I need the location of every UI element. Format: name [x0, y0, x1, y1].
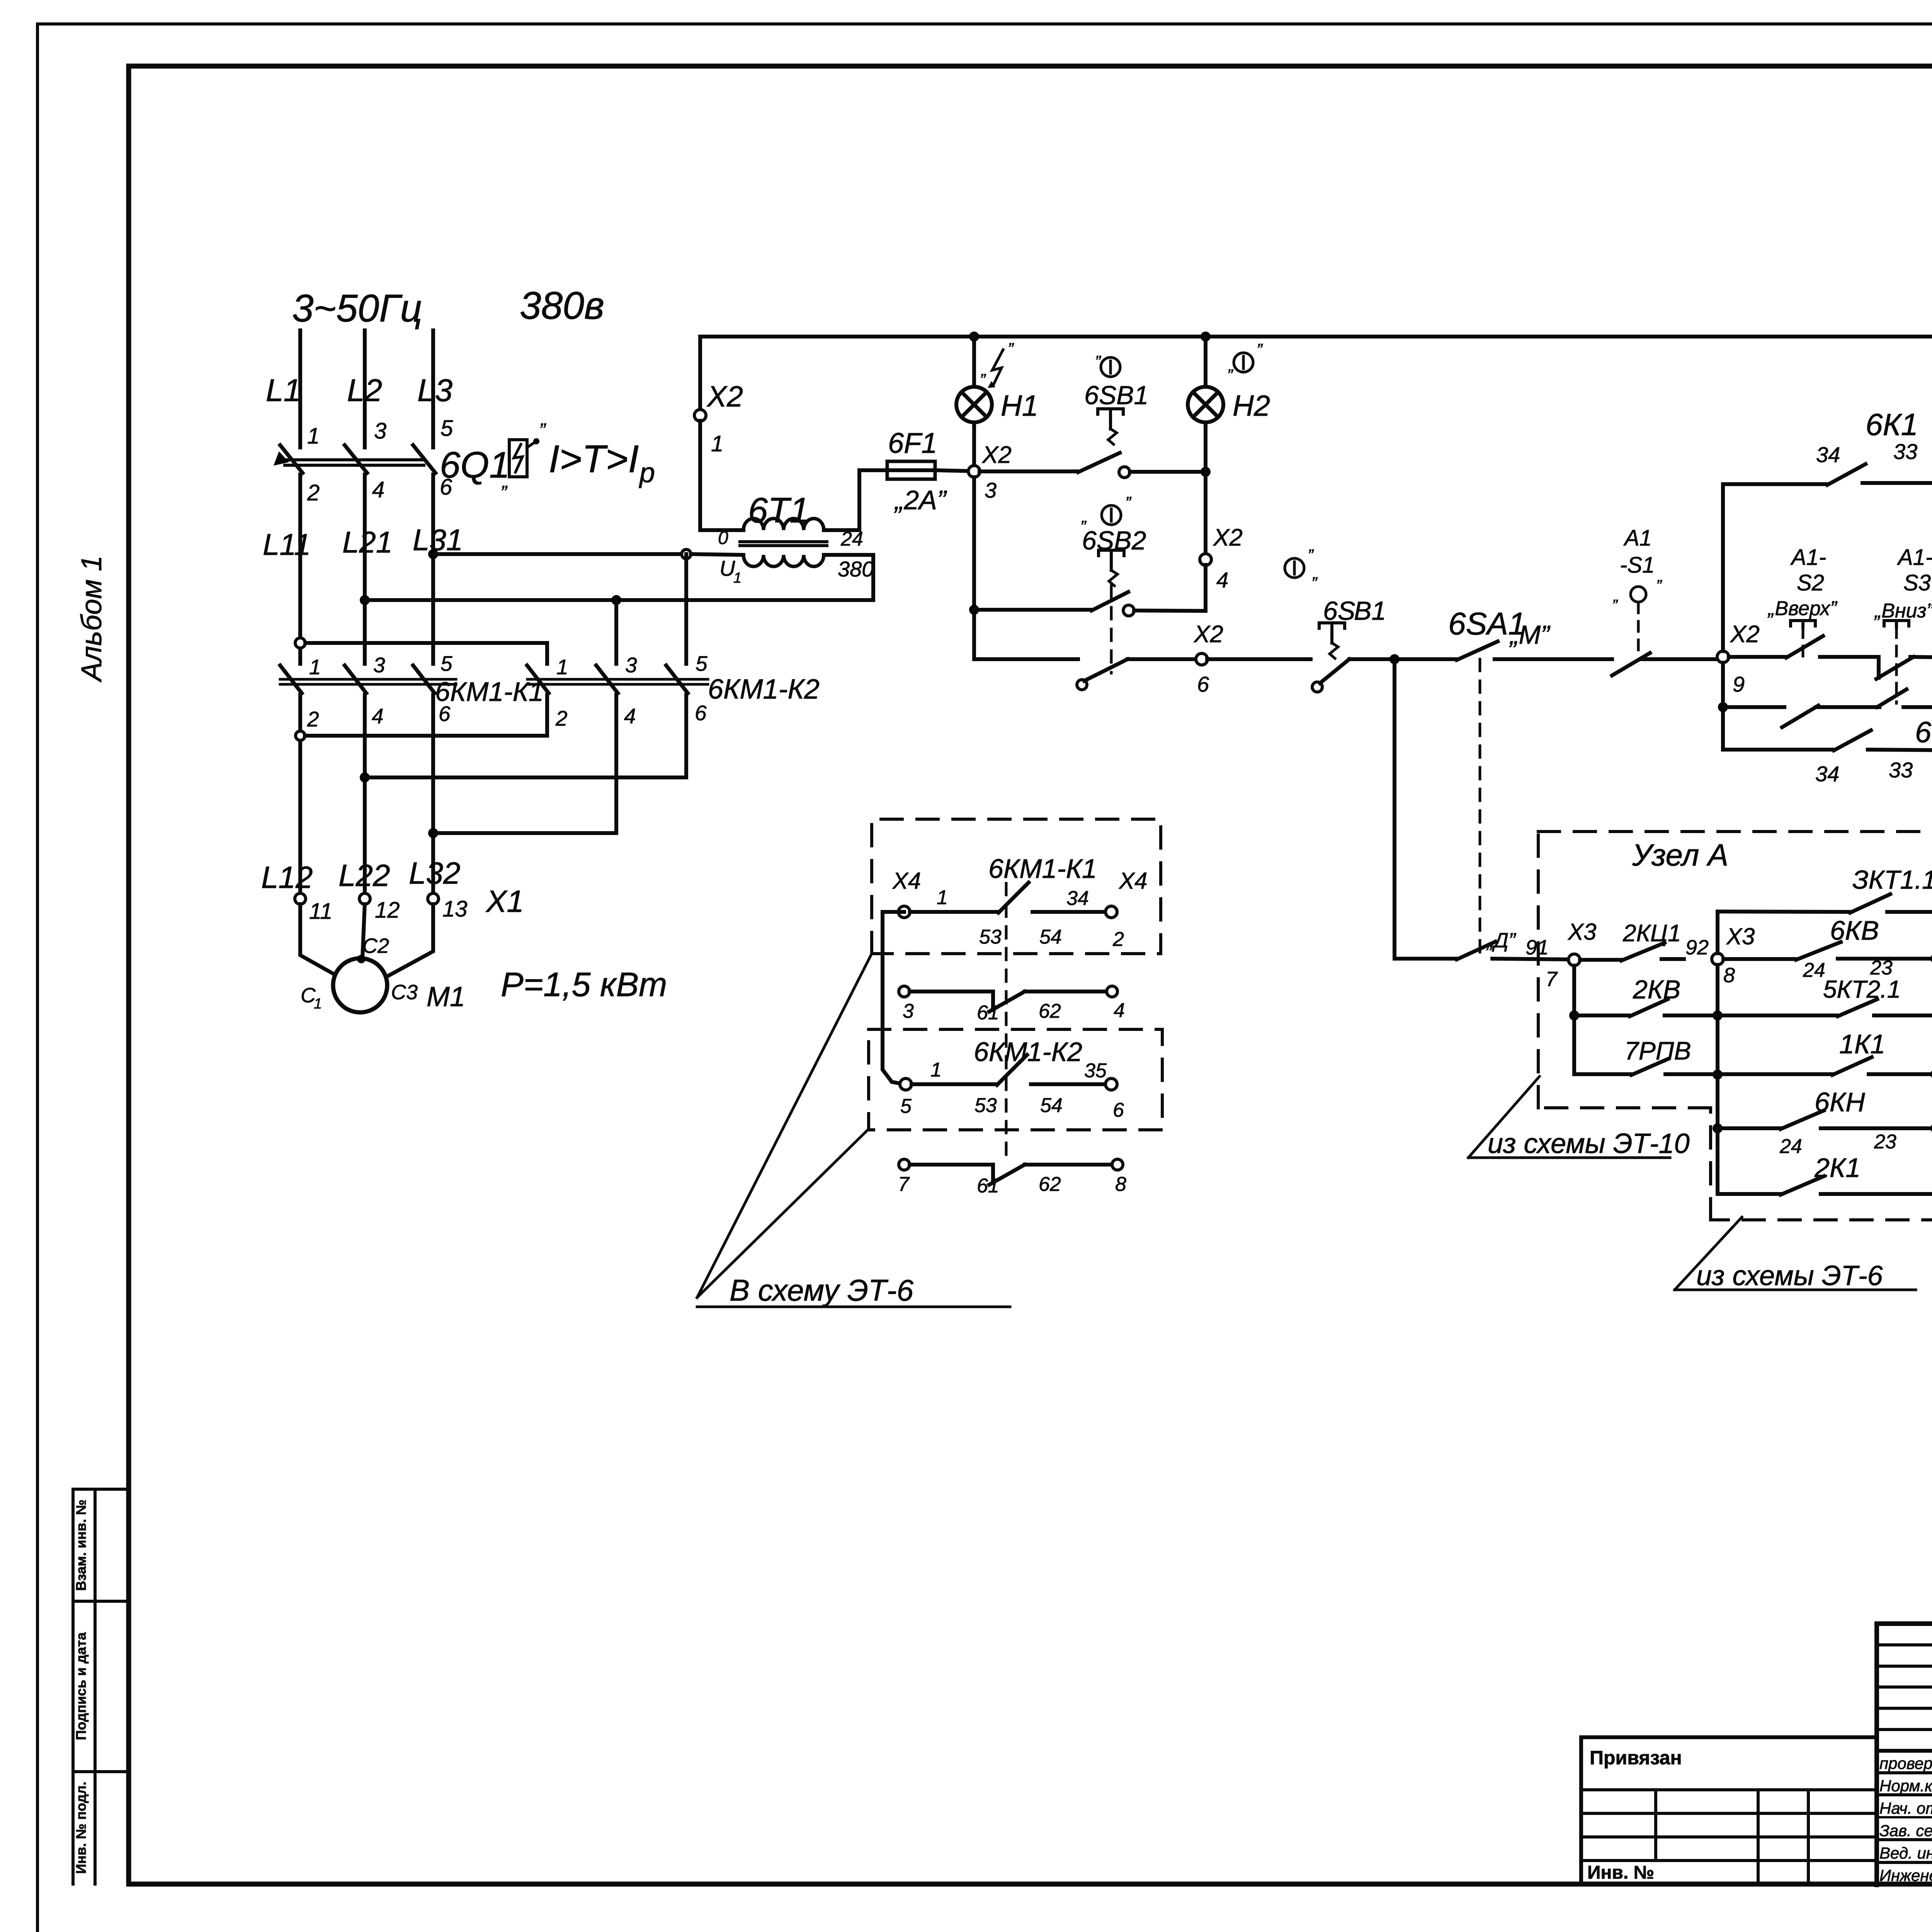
svg-text:6: 6 [1113, 1099, 1124, 1121]
svg-text:8: 8 [1723, 964, 1735, 987]
svg-text:1: 1 [937, 886, 948, 909]
svg-text:6SB1: 6SB1 [1084, 381, 1148, 410]
svg-text:X2: X2 [1193, 621, 1223, 648]
svg-text:2: 2 [307, 707, 319, 731]
svg-text:2: 2 [307, 480, 320, 505]
svg-text:”: ” [1008, 340, 1014, 359]
svg-text:35: 35 [1084, 1060, 1107, 1082]
svg-text:6F1: 6F1 [888, 427, 937, 459]
svg-text:Узел А: Узел А [1632, 838, 1728, 872]
svg-text:3: 3 [903, 1000, 914, 1022]
svg-text:2КВ: 2КВ [1633, 975, 1680, 1004]
svg-text:провер.: провер. [1879, 1754, 1932, 1772]
svg-text:из схемы ЭТ-6: из схемы ЭТ-6 [1696, 1260, 1883, 1291]
svg-text:61: 61 [977, 1002, 999, 1024]
svg-text:4: 4 [372, 477, 384, 502]
svg-text:24: 24 [1779, 1135, 1802, 1158]
svg-text:54: 54 [1039, 926, 1062, 948]
svg-text:53: 53 [979, 926, 1002, 948]
svg-text:5: 5 [900, 1095, 912, 1117]
svg-text:6: 6 [440, 474, 452, 500]
svg-text:8: 8 [1115, 1173, 1126, 1196]
svg-text:L2: L2 [347, 373, 382, 408]
svg-text:33: 33 [1889, 758, 1913, 782]
svg-text:”: ” [1257, 340, 1263, 359]
svg-text:6КВ: 6КВ [1830, 915, 1879, 946]
svg-text:1К1: 1К1 [1839, 1029, 1885, 1059]
svg-text:X3: X3 [1567, 919, 1596, 945]
svg-text:5: 5 [440, 416, 453, 441]
svg-text:Привязан: Привязан [1590, 1747, 1682, 1769]
svg-text:0: 0 [718, 528, 728, 548]
svg-text:Н1: Н1 [1001, 389, 1038, 422]
svg-text:23: 23 [1874, 1131, 1896, 1153]
svg-text:6Т1: 6Т1 [748, 491, 810, 530]
svg-text:„: „ [1081, 507, 1088, 526]
svg-text:1: 1 [307, 423, 320, 449]
svg-text:92: 92 [1685, 936, 1709, 959]
svg-text:X3: X3 [1726, 923, 1755, 949]
svg-text:6К2: 6К2 [1915, 716, 1932, 749]
svg-text:L11: L11 [263, 527, 311, 561]
svg-text:24: 24 [1803, 959, 1825, 981]
svg-text:5: 5 [440, 651, 452, 675]
svg-text:А1-: А1- [1790, 545, 1826, 570]
svg-text:34: 34 [1816, 442, 1840, 467]
svg-text:380: 380 [838, 557, 874, 581]
svg-text:1: 1 [314, 996, 322, 1012]
svg-text:6КМ1-К2: 6КМ1-К2 [708, 674, 820, 705]
svg-text:53: 53 [975, 1094, 997, 1117]
svg-text:L21: L21 [342, 525, 393, 559]
svg-text:А1: А1 [1623, 526, 1652, 551]
svg-text:2: 2 [555, 706, 568, 730]
svg-text:11: 11 [309, 899, 332, 924]
svg-text:4: 4 [372, 704, 384, 728]
svg-text:X2: X2 [1730, 621, 1760, 648]
svg-text:Инв. №: Инв. № [1587, 1862, 1654, 1883]
svg-text:1: 1 [556, 655, 568, 679]
svg-text:М1: М1 [427, 981, 465, 1012]
svg-text:12: 12 [375, 898, 400, 923]
svg-text:L32: L32 [409, 856, 460, 890]
svg-text:L3: L3 [417, 373, 452, 408]
svg-text:1: 1 [711, 431, 723, 456]
svg-text:„: „ [1312, 564, 1319, 583]
svg-text:6КН: 6КН [1815, 1087, 1865, 1117]
svg-text:6: 6 [1197, 672, 1209, 696]
svg-text:„: „ [502, 470, 509, 492]
svg-text:ЗКТ1.1: ЗКТ1.1 [1852, 865, 1932, 895]
svg-text:3: 3 [625, 653, 637, 677]
svg-text:p: p [639, 457, 655, 488]
svg-text:Зав. сект.: Зав. сект. [1879, 1821, 1932, 1840]
svg-text:61: 61 [977, 1175, 999, 1197]
svg-text:Н2: Н2 [1233, 389, 1270, 422]
svg-text:6КМ1-К1: 6КМ1-К1 [988, 854, 1097, 884]
svg-text:X2: X2 [981, 442, 1012, 468]
svg-text:X1: X1 [485, 884, 524, 918]
svg-text:1: 1 [309, 655, 321, 679]
svg-text:I>T>I: I>T>I [549, 437, 639, 481]
svg-text:9: 9 [1733, 672, 1745, 696]
svg-text:54: 54 [1040, 1094, 1063, 1117]
svg-text:34: 34 [1815, 762, 1839, 786]
svg-text:С3: С3 [391, 981, 418, 1004]
svg-text:„М”: „М” [1509, 620, 1551, 650]
svg-text:2К1: 2К1 [1814, 1153, 1861, 1183]
svg-text:”: ” [1656, 577, 1662, 595]
svg-text:”: ” [1125, 493, 1132, 512]
svg-text:4: 4 [624, 704, 636, 728]
svg-text:3: 3 [374, 418, 386, 444]
svg-text:S2: S2 [1797, 570, 1824, 595]
svg-text:4: 4 [1216, 568, 1228, 592]
svg-text:В схему ЭТ-6: В схему ЭТ-6 [730, 1273, 914, 1307]
svg-text:5КТ2.1: 5КТ2.1 [1823, 975, 1901, 1003]
svg-text:„: „ [981, 361, 987, 379]
svg-text:”: ” [539, 419, 546, 441]
svg-text:X2: X2 [706, 380, 743, 413]
svg-text:91: 91 [1526, 936, 1549, 959]
svg-text:-S1: -S1 [1620, 553, 1655, 578]
svg-text:6КМ1-К1: 6КМ1-К1 [435, 677, 544, 707]
svg-text:S3: S3 [1903, 570, 1931, 595]
svg-text:L12: L12 [261, 860, 313, 895]
svg-text:6КМ1-К2: 6КМ1-К2 [974, 1037, 1082, 1067]
svg-text:3: 3 [985, 478, 997, 502]
svg-text:7: 7 [898, 1173, 910, 1196]
svg-text:А1-: А1- [1897, 545, 1932, 570]
svg-text:Альбом 1: Альбом 1 [75, 555, 107, 682]
svg-text:L31: L31 [413, 523, 463, 557]
svg-text:X2: X2 [1213, 524, 1243, 551]
svg-text:62: 62 [1039, 1000, 1061, 1022]
svg-text:Нач. отд.: Нач. отд. [1879, 1799, 1932, 1817]
svg-text:3~50Гц: 3~50Гц [292, 287, 422, 330]
svg-text:”: ” [1308, 546, 1314, 565]
svg-text:7РПВ: 7РПВ [1624, 1036, 1691, 1065]
svg-text:„2А”: „2А” [894, 485, 947, 515]
svg-text:2: 2 [1112, 928, 1124, 951]
svg-text:Инженер.: Инженер. [1879, 1866, 1932, 1884]
svg-text:6: 6 [695, 701, 707, 725]
svg-text:L1: L1 [266, 373, 301, 408]
svg-text:X4: X4 [892, 868, 921, 894]
svg-text:„: „ [1613, 587, 1619, 605]
svg-text:13: 13 [442, 896, 468, 922]
svg-text:L22: L22 [338, 858, 390, 893]
svg-text:1: 1 [930, 1059, 942, 1081]
svg-text:5: 5 [696, 651, 707, 675]
svg-text:4: 4 [1114, 999, 1125, 1022]
svg-text:X4: X4 [1118, 868, 1147, 894]
svg-text:Вед. инж.: Вед. инж. [1879, 1844, 1932, 1862]
svg-text:P=1,5 кВт: P=1,5 кВт [501, 965, 667, 1003]
svg-text:Инв. № подл.: Инв. № подл. [73, 1782, 89, 1874]
svg-text:7: 7 [1546, 968, 1558, 991]
svg-text:62: 62 [1039, 1173, 1061, 1196]
svg-text:Норм.контр: Норм.контр [1879, 1777, 1932, 1795]
svg-text:Взам. инв. №: Взам. инв. № [73, 1500, 89, 1591]
svg-text:Подпись и дата: Подпись и дата [73, 1632, 89, 1740]
svg-text:из схемы ЭТ-10: из схемы ЭТ-10 [1488, 1128, 1690, 1159]
svg-text:U: U [719, 556, 735, 580]
svg-text:34: 34 [1066, 887, 1089, 910]
svg-text:„Д”: „Д” [1486, 929, 1516, 952]
svg-text:380в: 380в [520, 284, 604, 327]
svg-text:„Вниз”: „Вниз” [1874, 600, 1932, 622]
svg-text:„: „ [1096, 342, 1102, 361]
svg-text:33: 33 [1893, 439, 1917, 464]
svg-text:3: 3 [373, 653, 385, 677]
svg-text:6К1: 6К1 [1866, 407, 1918, 442]
svg-text:С2: С2 [362, 934, 389, 957]
svg-text:2КЦ1: 2КЦ1 [1622, 920, 1681, 947]
svg-text:В1: В1 [1354, 596, 1386, 626]
svg-text:6S: 6S [1323, 596, 1355, 626]
svg-text:„Вверх”: „Вверх” [1767, 597, 1838, 620]
svg-text:1: 1 [733, 570, 742, 586]
